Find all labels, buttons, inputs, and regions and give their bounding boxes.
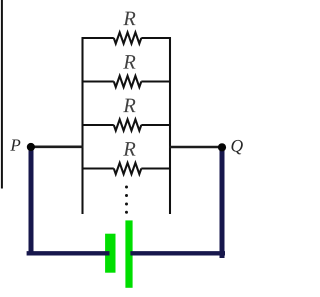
label P: [10, 139, 20, 150]
node Q dot: [218, 143, 226, 151]
wire: row 3 right lead: [141, 124, 171, 126]
label Q: [231, 140, 242, 154]
resistor R (row 2): [114, 76, 142, 87]
wire: row 1 right lead: [141, 37, 171, 39]
wire: row 4 right lead: [141, 167, 171, 169]
wire: left bus of resistor ladder: [81, 37, 83, 214]
navy wire: bottom right horizontal from battery: [130, 251, 225, 255]
label R (row 1): [123, 12, 135, 25]
resistor R (row 3): [114, 119, 142, 130]
node P dot: [27, 143, 35, 151]
wire: Q to ladder: [169, 146, 222, 149]
navy wire: P down (left vertical): [29, 147, 34, 256]
wire: row 2 left lead: [82, 80, 114, 82]
resistor R (row 4): [114, 163, 142, 174]
battery right plate (long): [125, 220, 132, 287]
page border fragment (left edge): [1, 0, 3, 189]
navy wire: up to Q (right vertical): [220, 147, 225, 258]
label R (row 2): [123, 55, 135, 68]
resistor R (row 1): [114, 32, 142, 43]
wire: row 3 left lead: [82, 124, 114, 126]
battery left plate (short): [105, 234, 115, 273]
wire: right bus of resistor ladder: [169, 37, 171, 214]
label R (row 4): [123, 142, 135, 155]
navy wire: bottom left horizontal to battery: [27, 251, 110, 255]
wire: row 2 right lead: [141, 80, 171, 82]
ellipsis dots (more resistors): [125, 186, 128, 189]
wire: row 1 left lead: [82, 37, 114, 39]
label R (row 3): [123, 99, 135, 112]
wire: P to ladder: [31, 146, 84, 149]
wire: row 4 left lead: [82, 167, 114, 169]
